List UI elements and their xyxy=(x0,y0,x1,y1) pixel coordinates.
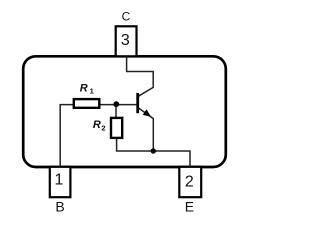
svg-text:1: 1 xyxy=(90,86,94,95)
svg-text:3: 3 xyxy=(121,32,130,49)
svg-text:B: B xyxy=(55,199,64,215)
svg-text:E: E xyxy=(185,199,194,215)
svg-text:1: 1 xyxy=(55,172,64,189)
svg-text:C: C xyxy=(122,10,131,24)
svg-text:2: 2 xyxy=(101,124,105,133)
svg-text:R: R xyxy=(93,119,101,131)
svg-text:2: 2 xyxy=(185,173,194,190)
svg-text:R: R xyxy=(80,83,88,95)
